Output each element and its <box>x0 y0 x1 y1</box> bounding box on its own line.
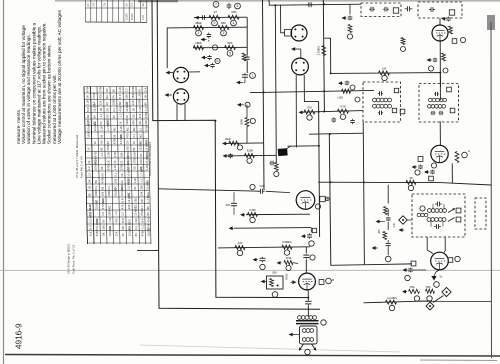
svg-text:Line voltage maintained at 117: Line voltage maintained at 117 volts for… <box>36 26 41 144</box>
svg-text:270K: 270K <box>120 164 124 170</box>
svg-text:4700: 4700 <box>141 230 145 236</box>
svg-text:0V: 0V <box>99 121 103 124</box>
svg-text:1500: 1500 <box>112 99 116 105</box>
svg-text:6V: 6V <box>101 219 105 222</box>
svg-text:100K: 100K <box>138 99 142 105</box>
svg-text:NC: NC <box>132 127 136 131</box>
svg-text:.05: .05 <box>99 107 103 111</box>
svg-text:5.5 MEG: 5.5 MEG <box>127 179 131 190</box>
svg-text:6V: 6V <box>144 102 148 105</box>
svg-text:47K: 47K <box>99 94 103 99</box>
svg-text:1.7 MEG: 1.7 MEG <box>139 166 143 177</box>
svg-text:270K: 270K <box>98 86 102 92</box>
svg-text:105: 105 <box>113 178 117 183</box>
svg-text:OV: OV <box>105 88 109 92</box>
svg-text:1.2K: 1.2K <box>119 125 123 131</box>
svg-text:33K: 33K <box>125 94 129 99</box>
svg-text:3.3MEG: 3.3MEG <box>317 46 321 56</box>
svg-text:B.P.: B.P. <box>121 218 125 223</box>
svg-text:4700: 4700 <box>146 216 150 222</box>
svg-text:0.1: 0.1 <box>138 127 142 131</box>
svg-text:620K: 620K <box>247 149 254 153</box>
svg-text:2: 2 <box>198 31 200 35</box>
svg-text:7MA: 7MA <box>409 286 414 289</box>
svg-text:68K: 68K <box>221 21 226 25</box>
svg-text:2.2: 2.2 <box>87 172 91 176</box>
svg-text:22: 22 <box>105 102 109 105</box>
svg-text:NC: NC <box>112 127 116 131</box>
svg-text:15,000: 15,000 <box>146 181 150 190</box>
svg-text:4700: 4700 <box>113 151 117 157</box>
svg-text:33K: 33K <box>144 120 148 125</box>
svg-text:1: 1 <box>252 74 254 78</box>
svg-text:85: 85 <box>99 134 103 137</box>
svg-text:100K: 100K <box>108 209 112 215</box>
svg-text:1.7 MEG: 1.7 MEG <box>146 192 150 203</box>
svg-text:47K: 47K <box>114 218 118 223</box>
svg-text:9: 9 <box>214 21 216 25</box>
svg-text:4700: 4700 <box>113 138 117 144</box>
svg-text:-1.2: -1.2 <box>114 211 118 216</box>
svg-text:22: 22 <box>121 233 125 236</box>
svg-text:OOI: OOI <box>260 184 265 188</box>
svg-text:1.2K: 1.2K <box>113 164 117 170</box>
svg-text:6.3: 6.3 <box>130 2 134 6</box>
svg-text:1K: 1K <box>87 147 91 150</box>
svg-text:15,000: 15,000 <box>94 200 98 209</box>
svg-text:A: A <box>468 149 470 153</box>
svg-text:100K: 100K <box>94 190 98 196</box>
svg-text:10 MEG: 10 MEG <box>125 102 129 112</box>
svg-text:1.2K: 1.2K <box>118 86 122 92</box>
svg-text:85: 85 <box>88 193 92 196</box>
svg-text:.05: .05 <box>144 94 148 98</box>
svg-text:21K: 21K <box>131 100 135 105</box>
svg-text:10 MEG: 10 MEG <box>94 160 98 170</box>
svg-text:-1.2: -1.2 <box>144 107 148 112</box>
svg-text:6V: 6V <box>92 115 96 118</box>
svg-text:12 MEG: 12 MEG <box>134 206 138 216</box>
svg-text:85: 85 <box>146 206 150 209</box>
svg-text:105: 105 <box>101 191 105 196</box>
svg-text:-1.2: -1.2 <box>139 178 143 183</box>
svg-text:47K: 47K <box>125 133 129 138</box>
svg-text:1500: 1500 <box>132 151 136 157</box>
svg-text:47K: 47K <box>120 204 124 209</box>
svg-text:OV: OV <box>105 108 109 112</box>
svg-text:.05: .05 <box>133 166 137 170</box>
svg-text:B.P.: B.P. <box>118 94 122 99</box>
svg-text:OV: OV <box>126 140 130 144</box>
svg-text:21K: 21K <box>115 231 119 236</box>
svg-text:measured at 1,000 ohms per vol: measured at 1,000 ohms per volt. <box>52 74 57 144</box>
svg-text:Socket connections are shown a: Socket connections are shown as bottom v… <box>47 44 52 144</box>
svg-text:0.46K: 0.46K <box>249 208 256 212</box>
svg-text:1K: 1K <box>106 160 110 163</box>
svg-text:3K: 3K <box>141 3 145 6</box>
svg-text:6V: 6V <box>106 141 110 144</box>
svg-text:21K: 21K <box>143 87 147 92</box>
svg-text:2V: 2V <box>86 3 90 6</box>
svg-text:OK: OK <box>100 166 104 170</box>
svg-text:1.2K: 1.2K <box>138 106 142 112</box>
svg-text:480K: 480K <box>195 21 202 25</box>
svg-text:-1.2: -1.2 <box>100 152 104 157</box>
svg-text:-1.2: -1.2 <box>99 113 103 118</box>
svg-text:All A-B Range in MEGS.: All A-B Range in MEGS. <box>67 243 71 274</box>
svg-text:60K: 60K <box>231 10 236 14</box>
svg-text:1.2K: 1.2K <box>108 217 112 223</box>
svg-text:6.3AC: 6.3AC <box>131 13 134 20</box>
svg-text:B: B <box>332 278 334 282</box>
svg-text:270K: 270K <box>106 144 110 150</box>
svg-text:Nominal tolerance on component: Nominal tolerance on component values ma… <box>31 22 36 144</box>
svg-text:-1.2: -1.2 <box>118 113 122 118</box>
svg-text:33K: 33K <box>127 204 131 209</box>
svg-text:1.2K: 1.2K <box>86 99 90 105</box>
svg-text:15,000: 15,000 <box>147 227 151 236</box>
svg-text:85: 85 <box>101 186 105 189</box>
svg-text:NC: NC <box>107 205 111 209</box>
svg-text:OV: OV <box>112 95 116 99</box>
svg-text:B.P.: B.P. <box>86 107 90 112</box>
svg-text:.05: .05 <box>131 107 135 111</box>
svg-text:1K: 1K <box>132 141 136 144</box>
svg-text:21K: 21K <box>99 100 103 105</box>
svg-text:5.5 MEG: 5.5 MEG <box>95 219 99 230</box>
svg-text:1.2K: 1.2K <box>138 93 142 99</box>
svg-text:A4K: A4K <box>238 241 243 245</box>
svg-text:.05: .05 <box>100 140 104 144</box>
svg-text:56: 56 <box>94 180 98 183</box>
svg-text:4700: 4700 <box>118 105 122 111</box>
svg-text:2.2: 2.2 <box>101 211 105 215</box>
svg-text:33K: 33K <box>101 225 105 230</box>
svg-text:2.2: 2.2 <box>124 88 128 92</box>
svg-text:A-0 MEG: A-0 MEG <box>387 297 397 300</box>
svg-text:-1.2: -1.2 <box>140 225 144 230</box>
svg-text:12 MEG: 12 MEG <box>127 193 131 203</box>
svg-text:4700: 4700 <box>107 164 111 170</box>
svg-text:15,000: 15,000 <box>92 103 96 112</box>
svg-text:105: 105 <box>119 152 123 157</box>
svg-text:12 MEG: 12 MEG <box>120 186 124 196</box>
svg-text:.005: .005 <box>225 204 230 207</box>
svg-text:22: 22 <box>119 160 123 163</box>
svg-text:TONE: TONE <box>286 273 289 280</box>
svg-text:390K: 390K <box>240 119 244 125</box>
svg-text:B.P.: B.P. <box>140 218 144 223</box>
svg-text:68: 68 <box>410 176 413 180</box>
svg-text:.05: .05 <box>88 185 92 189</box>
svg-text:measure- ments.: measure- ments. <box>16 109 21 144</box>
svg-text:0V: 0V <box>137 89 141 92</box>
svg-text:4700: 4700 <box>144 112 148 118</box>
svg-text:.27: .27 <box>213 10 218 14</box>
svg-text:1K: 1K <box>120 173 124 176</box>
svg-text:B.P.: B.P. <box>120 198 124 203</box>
svg-text:NC: NC <box>105 95 109 99</box>
svg-text:OV: OV <box>100 173 104 177</box>
svg-text:NC: NC <box>138 134 142 138</box>
svg-text:1K: 1K <box>119 121 123 124</box>
svg-text:OK: OK <box>140 199 144 203</box>
svg-text:8: 8 <box>237 4 239 8</box>
svg-text:5.5 MEG: 5.5 MEG <box>119 134 123 145</box>
svg-text:1.2K: 1.2K <box>99 125 103 131</box>
svg-text:1500: 1500 <box>125 118 129 124</box>
svg-text:RED: RED <box>225 137 231 141</box>
svg-text:B.P.: B.P. <box>88 225 92 230</box>
svg-text:Voltage measurements are at 20: Voltage measurements are at 20,000 ohms … <box>57 9 62 144</box>
svg-text:10 MEG: 10 MEG <box>108 226 112 236</box>
svg-text:52K: 52K <box>227 41 232 45</box>
svg-text:5: 5 <box>229 52 231 56</box>
svg-text:2V: 2V <box>124 3 128 6</box>
svg-text:OV: OV <box>91 2 95 6</box>
svg-text:56: 56 <box>112 134 116 137</box>
svg-text:470K: 470K <box>85 86 89 92</box>
svg-text:21K: 21K <box>139 159 143 164</box>
svg-text:100K: 100K <box>107 190 111 196</box>
svg-text:6.3AC: 6.3AC <box>126 13 129 20</box>
svg-text:1.2K: 1.2K <box>106 151 110 157</box>
svg-text:1.2K: 1.2K <box>133 177 137 183</box>
svg-text:RESISTANCE READINGS: RESISTANCE READINGS <box>148 142 152 176</box>
svg-text:270K: 270K <box>92 92 96 98</box>
svg-text:4700: 4700 <box>95 230 99 236</box>
svg-text:OK: OK <box>121 226 125 230</box>
svg-text:Measured values are from socke: Measured values are from socket pin to c… <box>42 22 47 144</box>
svg-text:0.1: 0.1 <box>134 225 138 229</box>
svg-text:4700: 4700 <box>93 151 97 157</box>
svg-text:1500: 1500 <box>131 92 135 98</box>
svg-text:47K: 47K <box>132 120 136 125</box>
svg-text:47K: 47K <box>138 113 142 118</box>
svg-text:OK: OK <box>86 95 90 99</box>
svg-text:NC: NC <box>118 101 122 105</box>
svg-text:15,000: 15,000 <box>114 187 118 196</box>
svg-text:0.1: 0.1 <box>113 172 117 176</box>
svg-text:V.R.: V.R. <box>392 222 396 227</box>
svg-text:270K: 270K <box>131 86 135 92</box>
svg-text:1K: 1K <box>125 115 129 118</box>
svg-text:6: 6 <box>217 59 219 63</box>
svg-text:105: 105 <box>126 146 130 151</box>
svg-text:10 MEG: 10 MEG <box>86 121 90 131</box>
svg-text:from Pin 2 of V4.: from Pin 2 of V4. <box>80 155 84 178</box>
svg-text:2.2: 2.2 <box>87 166 91 170</box>
svg-text:470: 470 <box>307 106 312 110</box>
svg-text:OV: OV <box>139 153 143 157</box>
svg-text:0.1: 0.1 <box>112 107 116 111</box>
svg-text:5.5 MEG: 5.5 MEG <box>101 199 105 210</box>
svg-text:21K: 21K <box>89 231 93 236</box>
svg-text:22: 22 <box>120 180 124 183</box>
svg-text:15,000: 15,000 <box>139 142 143 151</box>
svg-text:100K: 100K <box>86 131 90 137</box>
svg-text:5+: 5+ <box>439 275 442 279</box>
svg-text:0.8MEG: 0.8MEG <box>282 240 292 244</box>
svg-text:1.7 MEG: 1.7 MEG <box>106 121 110 132</box>
svg-text:85: 85 <box>100 147 104 150</box>
svg-text:1K: 1K <box>113 160 117 163</box>
svg-text:12 MEG: 12 MEG <box>128 226 132 236</box>
svg-text:1M: 1M <box>382 67 387 71</box>
svg-text:0.1: 0.1 <box>94 185 98 189</box>
svg-text:470K: 470K <box>144 125 148 131</box>
svg-text:1K: 1K <box>93 141 97 144</box>
svg-text:0V: 0V <box>112 115 116 118</box>
svg-text:0V: 0V <box>133 186 137 189</box>
svg-text:OV: OV <box>105 114 109 118</box>
svg-text:7: 7 <box>215 3 217 7</box>
svg-text:OK: OK <box>102 232 106 236</box>
svg-text:1.2K: 1.2K <box>142 15 145 20</box>
svg-text:270K: 270K <box>140 209 144 215</box>
svg-text:2.2: 2.2 <box>121 211 125 215</box>
svg-text:3: 3 <box>223 31 225 35</box>
svg-text:variation of ±15% in voltage a: variation of ±15% in voltage and resista… <box>26 34 31 144</box>
svg-text:6V: 6V <box>134 233 138 236</box>
svg-text:500: 500 <box>272 270 277 274</box>
svg-text:105: 105 <box>133 198 137 203</box>
svg-text:400: 400 <box>378 229 381 234</box>
svg-text:180K: 180K <box>195 41 202 45</box>
svg-text:NC: NC <box>146 212 150 216</box>
svg-text:OK: OK <box>87 179 91 183</box>
svg-text:470K: 470K <box>100 177 104 183</box>
svg-text:0.1: 0.1 <box>107 185 111 189</box>
svg-text:0.1: 0.1 <box>132 133 136 137</box>
svg-text:Cold Posn. Pin 2 of V2.: Cold Posn. Pin 2 of V2. <box>72 244 76 274</box>
svg-text:4.7K: 4.7K <box>340 105 346 109</box>
svg-text:5.5 MEG: 5.5 MEG <box>88 212 92 223</box>
svg-text:33K: 33K <box>140 191 144 196</box>
svg-text:21K: 21K <box>134 218 138 223</box>
svg-text:4: 4 <box>233 21 235 25</box>
svg-text:OV: OV <box>102 2 106 6</box>
svg-text:Volume control at maximum, no: Volume control at maximum, no signal app… <box>21 25 26 144</box>
svg-text:22: 22 <box>87 160 91 163</box>
svg-text:OK: OK <box>138 121 142 125</box>
svg-text:+150: +150 <box>337 96 343 100</box>
svg-text:12 MEG: 12 MEG <box>93 121 97 131</box>
svg-text:.05: .05 <box>131 114 135 118</box>
svg-text:NC: NC <box>125 127 129 131</box>
svg-text:NC: NC <box>86 114 90 118</box>
svg-text:56: 56 <box>132 147 136 150</box>
svg-text:#7 & #8 are 5.7 MEG. Measured: #7 & #8 are 5.7 MEG. Measured <box>75 134 79 178</box>
svg-text:270K: 270K <box>132 157 136 163</box>
svg-text:33K: 33K <box>140 185 144 190</box>
svg-text:85: 85 <box>111 89 115 92</box>
svg-text:2.2: 2.2 <box>140 205 144 209</box>
svg-text:4916-9: 4916-9 <box>15 323 24 349</box>
svg-text:10 MEG: 10 MEG <box>126 167 130 177</box>
